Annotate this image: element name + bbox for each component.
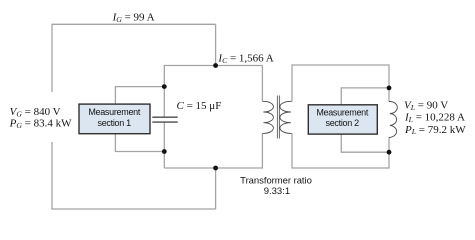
wire secondary loop left lower lead [291, 133, 293, 168]
node junction meas1 bottom [162, 149, 167, 154]
load inductor on secondary right edge [389, 102, 397, 138]
transformer primary winding [262, 101, 273, 133]
wire primary loop left upper (to capacitor) [163, 65, 165, 117]
svg-text:PL = 79.2 kW: PL = 79.2 kW [404, 124, 466, 136]
svg-text:section 1: section 1 [98, 118, 132, 128]
node junction meas2 bottom [387, 150, 392, 155]
wire secondary loop top [292, 64, 389, 66]
wire primary loop bottom [164, 167, 262, 169]
wire left rail upper segment [51, 24, 53, 92]
wire secondary loop bottom [292, 167, 389, 169]
wire left rail lower segment [51, 142, 53, 209]
wire measurement section 2 top connection [341, 88, 389, 105]
measurement section 2 box [308, 105, 377, 134]
svg-text:IL = 10,228 A: IL = 10,228 A [404, 112, 465, 124]
measurement section 1 box [79, 104, 150, 134]
svg-text:IC = 1,566 A: IC = 1,566 A [217, 53, 273, 65]
svg-text:VL = 90 V: VL = 90 V [404, 100, 448, 112]
svg-text:IG = 99 A: IG = 99 A [112, 11, 155, 23]
wire bottom rail [51, 208, 215, 210]
wire primary loop right lower lead [261, 133, 263, 168]
wire primary loop top [164, 65, 262, 67]
svg-text:PG = 83.4 kW: PG = 83.4 kW [9, 118, 73, 130]
svg-text:Transformer ratio: Transformer ratio [240, 175, 312, 186]
wire bottom riser to primary loop [215, 168, 217, 209]
svg-text:Measurement: Measurement [88, 107, 141, 117]
wire primary loop right upper lead [261, 66, 263, 102]
node junction I_C on primary top [213, 63, 218, 68]
svg-text:Measurement: Measurement [316, 107, 369, 117]
wire drop from top rail to I_C junction [215, 24, 217, 65]
wire secondary loop right lower [388, 137, 390, 168]
svg-text:9.33:1: 9.33:1 [264, 186, 290, 197]
node junction meas1 top [162, 84, 167, 89]
transformer secondary winding [280, 101, 292, 133]
transformer core [277, 96, 279, 139]
node junction primary bottom [213, 166, 218, 171]
wire secondary loop right upper [388, 64, 390, 101]
wire measurement section 1 bottom connection [115, 134, 164, 152]
svg-text:C = 15 μF: C = 15 μF [177, 100, 222, 112]
wire primary loop left lower (from capacitor) [163, 122, 165, 168]
capacitor C plates [152, 117, 177, 122]
wire measurement section 2 bottom connection [341, 134, 389, 152]
node junction meas2 top [387, 86, 392, 91]
wire measurement section 1 top connection [115, 87, 164, 105]
svg-text:VG = 840 V: VG = 840 V [10, 106, 61, 118]
wire top rail of generator loop [52, 23, 216, 25]
svg-text:section 2: section 2 [326, 118, 360, 128]
wire secondary loop left upper lead [291, 64, 293, 101]
